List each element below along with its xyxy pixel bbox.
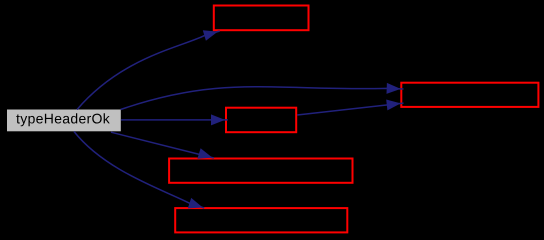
node2 (truncated callee, right) (401, 83, 538, 107)
label: typeHeaderOk (16, 113, 109, 126)
node5 (truncated callee, bottom) (175, 208, 347, 232)
wire: edge typeHeaderOk -> node3 (121, 119, 228, 121)
wire: edge typeHeaderOk -> node2 (121, 87, 404, 110)
wire: edge typeHeaderOk -> node1 (77, 31, 220, 110)
node typeHeaderOk (current function, grey) (7, 110, 121, 132)
node4 (truncated callee) (169, 159, 352, 183)
wire: edge typeHeaderOk -> node4 (111, 132, 214, 158)
node3 (truncated callee, middle) (226, 108, 296, 133)
wire: edge typeHeaderOk -> node5 (74, 132, 204, 209)
node1 (truncated callee, top) (214, 6, 309, 31)
wire: edge node3 -> node2 (297, 103, 403, 115)
